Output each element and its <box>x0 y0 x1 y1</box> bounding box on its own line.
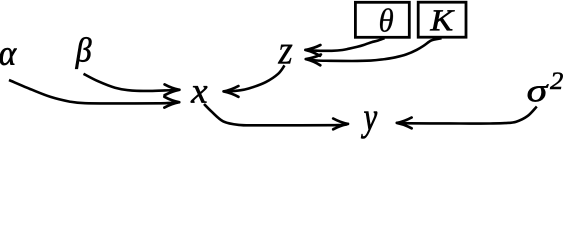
box theta <box>355 2 409 37</box>
node sigma of sigma^2 <box>528 84 549 101</box>
arrow x to y <box>204 104 348 129</box>
node alpha <box>0 48 17 65</box>
node z <box>278 45 292 64</box>
superscript 2 of sigma^2 <box>550 73 563 90</box>
node x <box>191 86 208 102</box>
arrow K to z <box>306 38 442 65</box>
arrow z to x <box>224 65 285 96</box>
label theta in box <box>380 8 393 32</box>
label K in box <box>430 10 455 30</box>
arrow beta to x <box>84 74 180 95</box>
node beta <box>75 37 91 69</box>
arrow theta to z <box>305 38 384 56</box>
box K <box>418 2 466 37</box>
arrow sigma^2 to y <box>397 107 537 129</box>
node y <box>361 112 377 139</box>
arrow alpha to x <box>9 80 179 108</box>
